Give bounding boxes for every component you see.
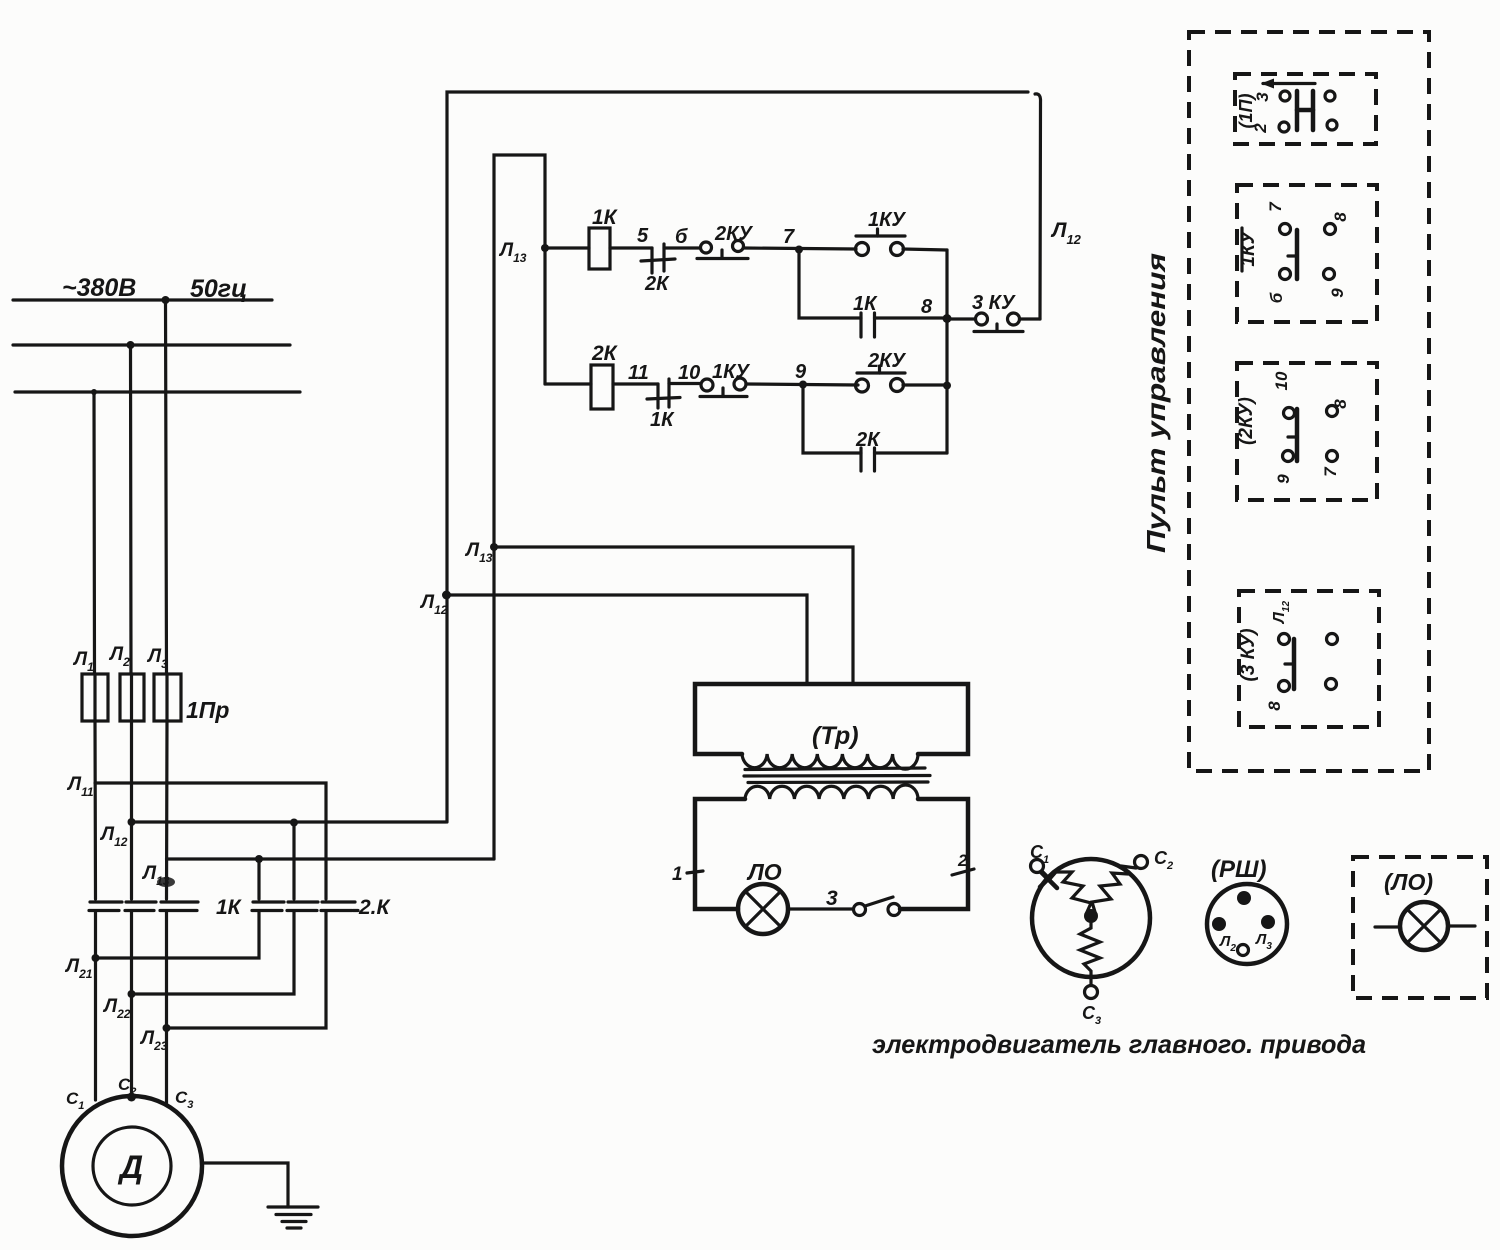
svg-text:Л21: Л21 [64, 956, 93, 981]
svg-text:2.К: 2.К [358, 896, 392, 919]
wire phase2 mid [130, 721, 133, 899]
svg-text:(ЛО): (ЛО) [1384, 869, 1433, 895]
wire L22 row [132, 911, 295, 994]
node 6 [675, 226, 688, 248]
label 1K main [216, 896, 243, 919]
wire L23 row [167, 911, 327, 1028]
svg-text:2: 2 [1251, 123, 1270, 134]
label L23 [139, 1028, 168, 1053]
pin 8 of 2KU [1327, 399, 1351, 417]
label Tr [812, 722, 859, 750]
lamp LO local [1375, 902, 1475, 950]
svg-text:8: 8 [1265, 701, 1284, 711]
pushbutton 1KU NC row2 [700, 361, 750, 397]
label D [117, 1149, 143, 1185]
wire row2 left [545, 382, 591, 385]
svg-text:2КУ: 2КУ [867, 350, 906, 372]
arrow direction 1P [1261, 79, 1315, 89]
wire phase1 mid [93, 721, 97, 899]
svg-text:5: 5 [637, 225, 649, 247]
net ~380V 50Hz label [62, 274, 247, 303]
node bus2 tap [127, 341, 135, 349]
svg-text:1КУ: 1КУ [868, 209, 906, 231]
svg-text:8: 8 [1331, 212, 1350, 222]
svg-text:1К: 1К [592, 206, 619, 229]
svg-text:9: 9 [1328, 288, 1347, 298]
contact 1K NC row2 [647, 379, 680, 431]
svg-text:7: 7 [783, 226, 795, 248]
svg-text:Л13: Л13 [498, 240, 527, 265]
wire motor to ground [202, 1163, 288, 1207]
svg-text:9: 9 [795, 361, 807, 383]
wire phase2 drop [129, 345, 133, 674]
wire row1 left [545, 246, 589, 249]
svg-text:Л23: Л23 [139, 1028, 168, 1053]
ground [268, 1207, 318, 1228]
lamp box LO dashed [1353, 857, 1487, 998]
svg-text:Л22: Л22 [102, 996, 131, 1021]
wire 3KU to L12 column [1020, 317, 1041, 320]
button box 3KU dashed [1239, 591, 1379, 727]
connector box 1P dashed [1235, 74, 1376, 144]
svg-text:8: 8 [921, 296, 933, 318]
contact bar 2KU [1288, 409, 1297, 461]
contact bar 1KU [1288, 230, 1297, 279]
transformer Tr secondary winding [745, 785, 918, 799]
transformer Tr primary box [695, 684, 968, 754]
label C3 motor [175, 1088, 193, 1111]
wire phase3 drop [166, 300, 167, 674]
svg-text:1К: 1К [216, 896, 243, 919]
label L13 row1 [498, 240, 527, 265]
label 3KU box [1238, 628, 1259, 681]
pin 7 of 1KU [1266, 201, 1291, 235]
wire phase1 drop [92, 392, 96, 674]
svg-text:7: 7 [1266, 201, 1285, 212]
svg-text:10: 10 [1272, 371, 1291, 390]
wire L13 row [167, 859, 495, 899]
wire branch row2 [803, 385, 861, 454]
label C2 motor [118, 1075, 136, 1098]
node bus3 tap [91, 389, 97, 395]
winding phase C2 [1092, 873, 1128, 912]
svg-text:С2: С2 [1154, 848, 1173, 872]
svg-text:(2КУ): (2КУ) [1236, 397, 1257, 445]
label L2 [108, 644, 130, 669]
node 7 [783, 226, 803, 254]
svg-text:1К: 1К [853, 293, 878, 315]
label control panel [1141, 253, 1171, 553]
label 1Pr [186, 697, 229, 723]
svg-text:2: 2 [957, 851, 968, 870]
node 9 [795, 361, 807, 389]
node L21 [92, 954, 100, 962]
motor D outer [62, 1096, 202, 1236]
terminal C1 [1030, 842, 1057, 888]
pin right-bottom of 1P [1327, 120, 1337, 130]
pushbutton 3KU NC [972, 292, 1023, 332]
contact 2K phase-b [287, 902, 318, 911]
node bus1 tap [162, 296, 170, 304]
svg-text:1Пр: 1Пр [186, 697, 229, 723]
wire switch to box [900, 907, 920, 910]
label 2K main [358, 896, 392, 919]
svg-text:10: 10 [678, 362, 700, 384]
node L13-a [255, 855, 263, 863]
pin right-bottom of 3KU [1326, 679, 1337, 690]
pin 6 of 1KU [1267, 269, 1291, 304]
terminal 2 secondary [952, 851, 974, 875]
wire phase3 mid [165, 721, 169, 899]
label 1P [1236, 94, 1256, 129]
pushbutton 2KU NO row2 [856, 350, 907, 392]
svg-text:ЛО: ЛО [746, 859, 782, 885]
control panel outer box [1189, 32, 1429, 771]
contact 1K phase2 [125, 902, 156, 911]
pin 3 of 1P [1253, 91, 1290, 102]
wire row2 right [903, 383, 947, 386]
svg-text:3: 3 [826, 887, 838, 910]
svg-text:2К: 2К [591, 342, 619, 365]
node L13 row1 [541, 244, 549, 252]
svg-text:1КУ: 1КУ [712, 361, 750, 383]
transformer Tr secondary box [695, 799, 968, 909]
svg-text:Д: Д [117, 1149, 143, 1185]
contact 2K NC row1 [641, 244, 675, 295]
plug contact symbol 1P [1297, 91, 1313, 130]
svg-text:С3: С3 [175, 1088, 193, 1111]
label L1 [72, 649, 94, 674]
node C2 terminal [127, 1093, 136, 1102]
pin L12 of 3KU [1271, 601, 1292, 645]
pin right-top of 3KU [1327, 634, 1338, 645]
svg-text:3 КУ: 3 КУ [972, 292, 1016, 314]
label 2KU box [1236, 397, 1257, 445]
svg-text:электродвигатель главного. п: электродвигатель главного. привода [872, 1029, 1366, 1059]
svg-text:Л12: Л12 [99, 824, 128, 849]
svg-text:~380В: ~380В [62, 274, 136, 302]
wire holding1 right [875, 316, 948, 319]
node 8 [921, 296, 952, 323]
contact 1K phase1 [89, 902, 122, 911]
wire contact to button row2 [669, 382, 701, 385]
svg-text:(РШ): (РШ) [1211, 856, 1267, 883]
label L13 drop [464, 540, 493, 565]
svg-text:(3 КУ): (3 КУ) [1238, 628, 1259, 681]
pin 8 of 1KU [1325, 212, 1351, 235]
svg-text:9: 9 [1274, 474, 1293, 484]
svg-text:б: б [675, 226, 688, 248]
label RSh L2 [1219, 933, 1236, 954]
contact 1K holding [853, 293, 878, 337]
node L12 drop [442, 591, 451, 600]
label RSh L3 [1255, 931, 1272, 952]
wire row1 mid [744, 248, 856, 249]
label L3 [146, 646, 168, 671]
svg-text:2К: 2К [644, 273, 670, 295]
pin 7 of 2KU [1321, 451, 1340, 477]
terminal C3 [1082, 975, 1101, 1027]
svg-text:Пульт управления: Пульт управления [1141, 253, 1171, 553]
connector RSh pin open [1238, 945, 1249, 956]
fuse 1Pr-b [120, 674, 144, 721]
node row2 right [943, 382, 951, 390]
contact 1K phase3 [160, 902, 198, 911]
pin right-top of 1P [1325, 91, 1335, 101]
pin 9 of 1KU [1324, 269, 1348, 298]
pin 8 of 3KU [1265, 681, 1290, 711]
svg-text:3: 3 [1253, 92, 1272, 102]
motor D inner [93, 1127, 171, 1205]
node 11 [628, 362, 649, 384]
label 1KU box [1238, 228, 1259, 271]
label L12 right [1050, 219, 1082, 247]
bus L3 [15, 390, 300, 393]
wire control top [447, 92, 1041, 822]
svg-text:7: 7 [1321, 466, 1340, 477]
svg-text:Л2: Л2 [108, 644, 130, 669]
relay coil 2K [591, 342, 619, 409]
wire right column [945, 250, 948, 453]
contact 2K phase-a [252, 902, 284, 911]
svg-text:Л3: Л3 [1255, 931, 1272, 952]
pin 2 of 1P [1251, 122, 1289, 134]
svg-text:Л11: Л11 [66, 774, 94, 799]
svg-text:Л12: Л12 [1050, 219, 1082, 247]
fuse 1Pr-c [154, 674, 181, 721]
button box 2KU dashed [1237, 363, 1377, 500]
relay coil 1K [589, 206, 619, 269]
svg-text:С3: С3 [1082, 1003, 1101, 1027]
svg-text:2К: 2К [855, 429, 881, 451]
pushbutton 1KU NO row1 [856, 209, 907, 256]
wire row1 right [903, 249, 947, 250]
contact 2K phase-c [321, 902, 358, 911]
connector RSh pin left [1212, 917, 1226, 931]
svg-text:Л1: Л1 [72, 649, 94, 674]
svg-text:(Тр): (Тр) [812, 722, 859, 750]
wire L11 row [95, 783, 326, 899]
terminal 1 secondary [672, 864, 703, 885]
switch 3 [826, 887, 900, 916]
pushbutton 2KU NC row1 [697, 223, 753, 259]
wire phase3 lower [165, 911, 168, 1105]
wire holding2 right [875, 451, 948, 454]
node L12-a [128, 818, 136, 826]
wire contact to button row1 [664, 246, 700, 249]
wire lamp to switch [788, 907, 853, 910]
wire L13 feeder [494, 155, 545, 859]
contact 2K holding [855, 429, 881, 471]
lamp LO main [738, 859, 788, 934]
node L22 [128, 990, 136, 998]
motor stator circle [1032, 859, 1150, 977]
node 5 [637, 225, 649, 247]
svg-text:11: 11 [628, 362, 649, 384]
svg-text:2КУ: 2КУ [714, 223, 753, 245]
svg-text:1: 1 [672, 864, 683, 885]
svg-text:Л13: Л13 [464, 540, 493, 565]
label L12 drop [419, 592, 448, 617]
label L11 [66, 774, 94, 799]
label C1 motor [66, 1089, 84, 1112]
svg-text:б: б [1267, 292, 1286, 303]
wire L12 row [132, 822, 447, 899]
wire L12 to transformer [446, 595, 807, 684]
bus L2 [13, 343, 290, 346]
wire L21 row [96, 911, 260, 958]
terminal C2 [1121, 848, 1173, 872]
fuse 1Pr-a [82, 674, 108, 721]
node 10 [678, 362, 700, 384]
contact bar 3KU [1285, 639, 1294, 689]
node star point [1084, 909, 1098, 923]
wire branch row1 [799, 250, 861, 319]
connector RSh pin right [1261, 915, 1275, 929]
pin 9 of 2KU [1274, 451, 1294, 484]
wire coil1K to contact [610, 246, 652, 249]
svg-text:С1: С1 [66, 1089, 84, 1112]
label L13 smudged [141, 863, 175, 888]
connector RSh circle [1207, 856, 1287, 964]
wire L13 to transformer [494, 547, 853, 684]
svg-text:Л3: Л3 [146, 646, 168, 671]
bus L1 [13, 298, 272, 301]
node L13 drop [490, 543, 498, 551]
node L23 [163, 1024, 171, 1032]
transformer Tr core [744, 768, 930, 783]
caption main drive motor [872, 1029, 1366, 1059]
wire row2 mid [746, 384, 858, 385]
label L12 [99, 824, 128, 849]
svg-text:Л2: Л2 [1219, 933, 1236, 954]
winding phase C3 [1080, 921, 1100, 977]
svg-text:1К: 1К [650, 409, 675, 431]
svg-text:Л12: Л12 [1271, 601, 1292, 625]
transformer Tr primary winding [742, 754, 918, 769]
connector RSh pin top [1237, 891, 1251, 905]
wire phase1 lower [94, 911, 97, 1100]
label L22 [102, 996, 131, 1021]
wire node8 to 3KU [947, 317, 975, 320]
button box 1KU dashed [1237, 185, 1377, 322]
pin 10 of 2KU [1272, 371, 1295, 418]
wire coil2K to contact [613, 382, 658, 385]
label L21 [64, 956, 93, 981]
winding phase C1 [1050, 872, 1091, 912]
wire phase2 lower [130, 911, 133, 1096]
node L12-b [290, 819, 298, 827]
label LO box [1384, 869, 1433, 895]
